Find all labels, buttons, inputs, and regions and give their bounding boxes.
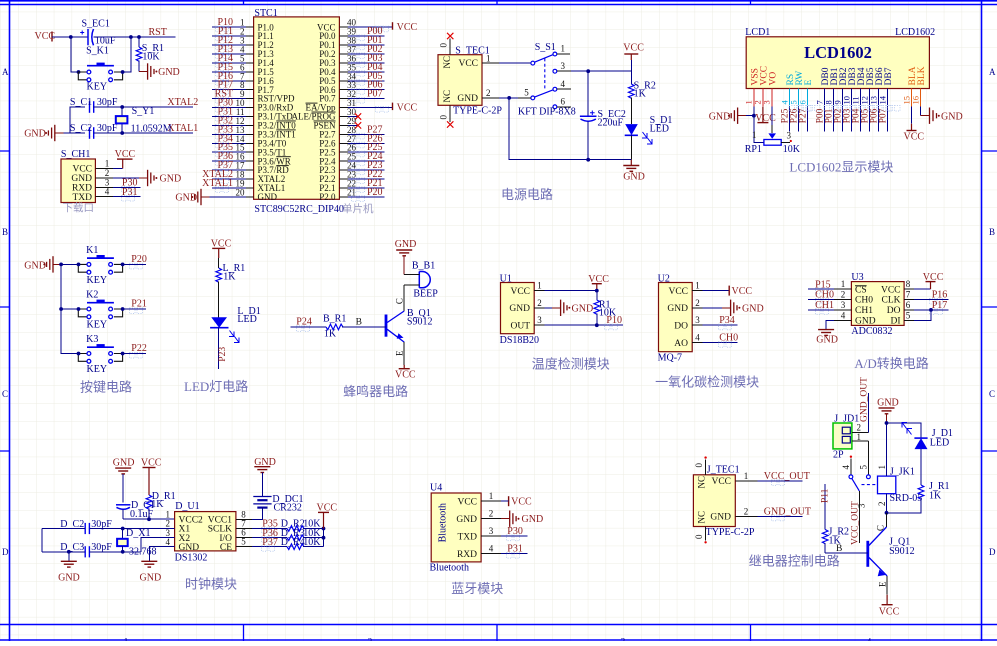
svg-text:4: 4 <box>561 79 566 89</box>
wire LCD BLK to GND <box>921 107 963 124</box>
svg-text:CH0: CH0 <box>855 296 873 306</box>
svg-text:LCD1602显示模块: LCD1602显示模块 <box>789 160 893 175</box>
wire bottom crystal row <box>70 132 85 134</box>
svg-text:B_B1: B_B1 <box>412 260 435 271</box>
resistor D_R1 <box>146 491 175 519</box>
IC STC1 STC89C52RC_DIP40 <box>254 8 340 199</box>
svg-text:B: B <box>836 544 842 554</box>
svg-text:LED: LED <box>650 124 669 135</box>
svg-text:P15: P15 <box>815 279 831 290</box>
svg-text:继电器控制电路: 继电器控制电路 <box>749 554 840 569</box>
U3 pin 5 tied to DO <box>904 308 933 320</box>
svg-text:GND_OUT: GND_OUT <box>860 377 870 422</box>
J_TEC1 pin 1 wire VCC_OUT <box>735 471 810 486</box>
junction relay GND node <box>885 421 889 425</box>
svg-text:6: 6 <box>561 96 566 106</box>
svg-text:GND: GND <box>456 515 477 525</box>
svg-text:C: C <box>395 298 405 304</box>
MCU pin 28 <box>339 124 384 139</box>
svg-text:1: 1 <box>841 279 846 289</box>
wire switch pin3 to VCC node <box>571 70 631 72</box>
pin 4 S_CH1 wire P31 <box>95 187 140 202</box>
svg-text:1: 1 <box>877 465 887 470</box>
J_JD1 pin 1 wire to contact <box>852 432 869 475</box>
svg-text:NC: NC <box>442 90 452 103</box>
svg-text:VCC: VCC <box>72 165 92 175</box>
junction right of cap <box>129 35 133 39</box>
junction at key right <box>121 70 125 74</box>
LCD pin 11 stub <box>850 89 860 107</box>
svg-text:3: 3 <box>695 315 700 325</box>
svg-text:P20: P20 <box>131 254 147 265</box>
U2 pin 1 to VCC <box>692 281 752 297</box>
svg-text:30pF: 30pF <box>97 123 118 134</box>
svg-text:按键电路: 按键电路 <box>80 380 132 395</box>
pin 1 S_TEC1 wire <box>482 53 531 63</box>
MCU pin 35 <box>339 62 384 77</box>
svg-text:VO: VO <box>768 72 778 86</box>
J_JD1 pin 2 wire GND_OUT up <box>852 377 870 433</box>
transistor J_Q1 S9012 <box>868 527 915 576</box>
LCD pin 1 stub <box>744 89 754 107</box>
wire GND to crystal net <box>63 107 85 133</box>
pin 1 S_CH1 <box>95 159 113 169</box>
svg-text:E: E <box>395 350 405 356</box>
LCD pin 16 stub <box>910 89 920 107</box>
power ground GND (power circuit) <box>623 160 645 183</box>
U3 pin 1 wire P15 <box>808 279 851 294</box>
pin 2 S_TEC1 wire to ground rail <box>482 88 509 98</box>
svg-text:E: E <box>877 581 887 587</box>
svg-text:C: C <box>989 389 995 399</box>
MCU pin 12 (P3.2/INT0) <box>212 115 253 129</box>
svg-text:2: 2 <box>489 509 494 519</box>
svg-text:VCC: VCC <box>668 287 688 297</box>
wire VCC2 net <box>123 518 174 520</box>
svg-text:2: 2 <box>841 290 846 300</box>
svg-text:4: 4 <box>105 187 110 197</box>
MCU pin 40 <box>339 18 417 34</box>
pin 0 bottom S_TEC1 no-connect <box>439 105 454 127</box>
svg-text:RXD: RXD <box>457 550 477 560</box>
wire trunk to K1 <box>61 263 78 265</box>
svg-text:DB7: DB7 <box>884 67 894 85</box>
relay contact lever and pin 3 VCC_OUT <box>851 478 867 545</box>
U4 pin 1 to VCC <box>481 491 532 508</box>
MCU pin 7 (P1.6) <box>212 71 253 86</box>
pin 0 top S_TEC1 no-connect <box>439 33 454 55</box>
svg-text:2: 2 <box>486 88 491 98</box>
MCU pin 21 <box>339 187 384 202</box>
svg-text:0: 0 <box>694 534 704 539</box>
wire S_EC1 to RST node <box>94 36 140 38</box>
svg-text:VCC: VCC <box>711 477 731 487</box>
resistor J_R1 <box>887 481 950 513</box>
MCU pin 18 (XTAL2) <box>202 169 253 184</box>
U1 pin 1 wire to VCC <box>534 281 597 291</box>
LCD pin 14 stub <box>877 89 887 107</box>
capacitor D_C3 <box>42 542 141 557</box>
U3 pin 7 wire P16 <box>904 290 948 305</box>
svg-text:4: 4 <box>841 310 846 320</box>
junction S_EC2 top <box>586 69 590 73</box>
svg-text:16: 16 <box>910 96 920 105</box>
svg-text:D: D <box>989 547 996 557</box>
wire D_U1 GND pin to ground <box>149 547 174 562</box>
MCU pin 26 <box>339 142 384 157</box>
power ground GND (D_U1) <box>140 561 162 583</box>
power ground GND (MCU pin20) <box>175 189 209 205</box>
svg-text:10K: 10K <box>783 144 801 155</box>
svg-text:GND: GND <box>58 573 80 584</box>
svg-text:VCC: VCC <box>115 149 136 160</box>
MCU pin 9 (RST/VPD) <box>212 89 253 104</box>
MCU pin 31 <box>339 98 417 114</box>
wire K2 to P21 <box>123 308 146 310</box>
svg-text:GND: GND <box>113 458 135 469</box>
svg-text:4: 4 <box>695 333 700 343</box>
U3 pin 8 to VCC <box>904 272 944 289</box>
svg-text:3: 3 <box>561 61 566 71</box>
switch K1 <box>78 245 122 286</box>
svg-text:TXD: TXD <box>72 193 92 203</box>
svg-text:1: 1 <box>561 44 566 54</box>
MCU pin 32 <box>339 89 384 104</box>
svg-text:S_Y1: S_Y1 <box>132 106 155 117</box>
svg-text:VCC: VCC <box>510 287 530 297</box>
D_U1 pin 5 CE wire P37 <box>236 537 287 552</box>
IC U4 Bluetooth <box>430 483 482 574</box>
crystal S_Y1 <box>116 106 172 135</box>
keys trunk wire <box>61 264 70 353</box>
IC U1 DS18B20 <box>500 273 539 346</box>
MCU pin 13 (P3.3/INT1) <box>212 124 253 139</box>
LCD pin 2 stub <box>753 89 763 107</box>
svg-text:A: A <box>989 67 996 77</box>
resistor S_R2 <box>629 71 656 124</box>
MCU pin 1 (P1.0) <box>212 17 253 32</box>
MCU pin 23 <box>339 169 384 184</box>
svg-text:RXD: RXD <box>72 184 92 194</box>
svg-text:1K: 1K <box>223 271 236 282</box>
svg-text:VCC: VCC <box>923 272 944 283</box>
svg-text:2: 2 <box>368 637 373 642</box>
wire S_C2 to XTAL1 <box>94 132 193 134</box>
svg-text:1K: 1K <box>929 490 942 501</box>
MCU pin 24 <box>339 160 384 175</box>
capacitor S_EC2 <box>580 71 626 160</box>
svg-text:3: 3 <box>537 315 542 325</box>
resistor J_R2 <box>822 526 849 553</box>
LCD pin 12 stub <box>859 89 869 107</box>
LED J_D1 <box>902 423 953 486</box>
D_U1 left pin numbers <box>166 509 171 547</box>
connector S_CH1 <box>61 149 96 203</box>
U4 pin 4 wire P31 <box>481 544 527 559</box>
svg-text:10K: 10K <box>142 52 160 63</box>
capacitor D_C1 <box>116 474 155 520</box>
junction K1 right bracket <box>121 263 125 267</box>
U2 pin 3 wire P34 <box>692 315 737 330</box>
MCU pin 10 (P3.0/RxD) <box>212 98 253 113</box>
power ground GND (clock top-left) <box>113 458 135 474</box>
svg-text:1: 1 <box>124 637 129 642</box>
svg-text:P17: P17 <box>932 300 948 311</box>
svg-text:K2: K2 <box>86 290 98 301</box>
wire trunk to K2 <box>61 308 78 310</box>
svg-text:VCC_OUT: VCC_OUT <box>851 501 861 545</box>
power port VCC (pullups) <box>317 502 338 528</box>
svg-text:GND: GND <box>258 192 278 202</box>
svg-text:S_C1: S_C1 <box>70 97 92 108</box>
svg-text:6: 6 <box>906 300 911 310</box>
svg-text:LED: LED <box>930 437 949 448</box>
svg-text:A: A <box>2 67 9 77</box>
svg-text:B: B <box>356 318 362 328</box>
transistor B_Q1 S9012 <box>386 308 432 342</box>
svg-text:2: 2 <box>695 298 700 308</box>
wire trunk to K3 <box>61 353 78 355</box>
svg-text:LED: LED <box>237 314 256 325</box>
svg-text:P07: P07 <box>367 89 383 100</box>
svg-text:GND: GND <box>509 304 530 314</box>
svg-text:KEY: KEY <box>87 364 108 375</box>
svg-text:电源电路: 电源电路 <box>501 187 553 202</box>
wire left trunk <box>41 529 43 552</box>
svg-text:LED灯电路: LED灯电路 <box>184 379 248 394</box>
power port VCC (LCD pin2, pointing down) <box>755 107 776 124</box>
svg-text:S9012: S9012 <box>407 316 433 327</box>
MCU pin 11 (P3.1/TxD) <box>212 107 253 122</box>
capacitor S_C1 <box>70 97 118 113</box>
svg-text:B_R1: B_R1 <box>323 314 346 325</box>
svg-text:C: C <box>2 389 8 399</box>
svg-text:KEY: KEY <box>87 319 108 330</box>
svg-text:2P: 2P <box>833 450 844 461</box>
svg-text:P11: P11 <box>820 488 830 503</box>
MCU pin 34 <box>339 71 384 86</box>
svg-text:VCC: VCC <box>755 113 776 124</box>
wire S_TEC1 pin5 link <box>509 97 518 99</box>
svg-text:8: 8 <box>906 279 911 289</box>
U1 pin 3 wire P10 <box>534 315 623 330</box>
svg-text:BLK: BLK <box>917 66 927 85</box>
LCD control pins wires P25 P26 P27 <box>780 106 820 132</box>
svg-text:GND: GND <box>623 172 645 183</box>
svg-text:GND: GND <box>941 111 963 122</box>
svg-text:GND: GND <box>667 304 688 314</box>
svg-text:20: 20 <box>236 187 246 197</box>
svg-text:单片机: 单片机 <box>342 202 374 215</box>
svg-text:4: 4 <box>841 465 851 470</box>
svg-text:VCC: VCC <box>904 132 925 143</box>
svg-text:3: 3 <box>841 300 846 310</box>
svg-text:Bluetooth: Bluetooth <box>438 503 449 542</box>
svg-text:K3: K3 <box>86 334 98 345</box>
junction K3 right bracket <box>121 352 125 356</box>
wire VSS down to RP1 pin1 <box>754 116 764 143</box>
switch K2 <box>78 290 122 331</box>
svg-text:GND: GND <box>395 239 417 250</box>
svg-text:ADC0832: ADC0832 <box>851 326 892 337</box>
svg-text:TYPE-C-2P: TYPE-C-2P <box>453 106 502 117</box>
J_TEC1 pin 0 top <box>694 456 707 474</box>
svg-text:1: 1 <box>752 130 757 140</box>
power ground GND (battery) <box>254 457 276 473</box>
net label P11 wire <box>820 484 830 529</box>
svg-text:BEEP: BEEP <box>413 289 438 300</box>
crystal D_X1 <box>117 528 156 557</box>
power ground GND (crystal) <box>24 125 63 141</box>
MCU pin 14 (P3.4/T0) <box>212 133 253 148</box>
MCU pin 20 (GND) <box>209 187 254 197</box>
junction at reset parallel branch left <box>69 35 73 39</box>
svg-text:DO: DO <box>887 306 901 316</box>
svg-text:6: 6 <box>797 100 807 104</box>
svg-text:GND: GND <box>742 303 764 314</box>
svg-text:10K: 10K <box>303 537 321 548</box>
U4 pin 2 to GND <box>481 509 543 527</box>
LCD pin 5 stub <box>788 89 798 107</box>
svg-text:1K: 1K <box>634 89 647 100</box>
svg-text:5: 5 <box>524 88 529 98</box>
svg-text:CH1: CH1 <box>815 300 834 311</box>
svg-text:TXD: TXD <box>457 532 477 542</box>
power port VCC (power circuit) <box>623 43 644 72</box>
svg-text:S_EC1: S_EC1 <box>82 18 110 29</box>
svg-text:CR232: CR232 <box>274 503 302 514</box>
wire left branch to key S_K1 <box>71 37 79 72</box>
MCU pin 36 <box>339 53 384 68</box>
svg-text:1K: 1K <box>151 499 164 510</box>
power ground GND (LCD left) <box>709 108 747 124</box>
wire buzzer to collector <box>395 285 405 311</box>
svg-text:GND: GND <box>24 260 46 271</box>
svg-text:P31: P31 <box>122 187 138 198</box>
svg-text:1: 1 <box>744 471 749 481</box>
U3 pin 6 wire P17 <box>904 300 948 315</box>
svg-text:B: B <box>989 227 995 237</box>
resistor B_R1 <box>323 314 346 340</box>
svg-text:4: 4 <box>489 544 494 554</box>
capacitor S_EC1 <box>80 18 116 46</box>
junction XTAL2 node <box>120 105 124 109</box>
resistor L_R1 <box>216 258 245 317</box>
svg-text:VCC: VCC <box>395 370 416 381</box>
svg-text:D: D <box>2 547 9 557</box>
svg-text:7: 7 <box>906 290 911 300</box>
MCU pin 37 <box>339 44 384 59</box>
relay pin 2 wire <box>877 494 887 513</box>
MCU pin 19 (XTAL1) <box>202 178 253 193</box>
svg-text:DS18B20: DS18B20 <box>500 335 539 346</box>
junction XTAL1 node <box>120 131 124 135</box>
svg-text:K1: K1 <box>86 245 98 256</box>
svg-text:2: 2 <box>744 506 749 516</box>
power port VCC (U1) <box>588 274 609 291</box>
wire GND to buzzer <box>403 256 405 275</box>
MCU pin 17 (P3.7/RD) <box>212 160 253 175</box>
svg-text:VCC: VCC <box>879 607 900 618</box>
svg-text:P10: P10 <box>606 315 622 326</box>
svg-text:P22: P22 <box>131 343 147 354</box>
svg-text:GND: GND <box>457 94 478 104</box>
power port VCC (reset circuit) <box>35 31 56 42</box>
svg-text:DO: DO <box>674 321 688 331</box>
svg-text:220uF: 220uF <box>598 118 624 129</box>
switch K3 <box>78 334 122 375</box>
svg-text:XTAL1: XTAL1 <box>167 123 198 134</box>
J_TEC1 pin 2 wire GND_OUT <box>735 506 811 521</box>
MCU pin 38 <box>339 35 384 50</box>
svg-text:S_C2: S_C2 <box>70 123 92 134</box>
svg-text:XTAL2: XTAL2 <box>167 97 198 108</box>
svg-text:CH0: CH0 <box>815 290 834 301</box>
LCD data pins wires P00-P07 <box>815 106 900 132</box>
junction D_R2 VCC rail <box>322 527 326 531</box>
MCU pin 29 <box>339 116 361 129</box>
svg-text:P20: P20 <box>367 187 383 198</box>
svg-text:时钟模块: 时钟模块 <box>185 577 237 592</box>
svg-text:0: 0 <box>694 463 704 468</box>
buzzer B_B1 BEEP <box>404 260 438 299</box>
svg-text:2: 2 <box>105 168 110 178</box>
svg-text:RST: RST <box>149 27 167 38</box>
svg-text:5: 5 <box>906 310 911 320</box>
LCD pin 4 stub <box>779 89 789 107</box>
svg-text:B: B <box>2 227 8 237</box>
U2 pin 2 to GND <box>692 298 763 316</box>
svg-text:1: 1 <box>105 159 110 169</box>
battery D_DC1 CR232 <box>252 473 304 520</box>
svg-text:1: 1 <box>486 53 491 63</box>
svg-text:0: 0 <box>439 115 449 120</box>
svg-text:14: 14 <box>877 95 887 104</box>
svg-text:3: 3 <box>489 526 494 536</box>
wire LCD BLA to VCC <box>904 107 925 143</box>
junction crystal bottom <box>121 550 125 554</box>
power ground GND (crystal left) <box>58 550 80 584</box>
svg-text:3: 3 <box>621 637 626 642</box>
svg-text:2: 2 <box>537 298 542 308</box>
svg-text:J_TEC1: J_TEC1 <box>707 464 740 475</box>
LCD pin 15 stub <box>901 89 911 107</box>
svg-text:VCC: VCC <box>397 103 418 114</box>
power port VCC (LED circuit) <box>211 238 232 258</box>
MCU pin 22 <box>339 178 384 193</box>
svg-text:VCC: VCC <box>457 497 477 507</box>
resistor D_R2 <box>281 519 324 532</box>
wire S_R1 to GND <box>138 61 140 72</box>
U3 pin 4 to GND <box>816 310 851 345</box>
svg-text:S_K1: S_K1 <box>86 46 109 57</box>
svg-text:GND: GND <box>175 192 197 203</box>
junction trunk K1 <box>59 263 63 267</box>
switch S_K1 <box>78 46 122 93</box>
svg-text:NC: NC <box>697 511 707 524</box>
svg-text:GND: GND <box>572 303 594 314</box>
svg-text:5: 5 <box>241 537 246 547</box>
relay contact pin 4 no-connect <box>841 456 853 479</box>
wire GND node to LED branch <box>887 423 922 438</box>
IC D_U1 DS1302 <box>175 501 236 563</box>
junction LCD VSS-RP1 <box>752 114 756 118</box>
svg-text:蓝牙模块: 蓝牙模块 <box>451 581 503 596</box>
svg-text:5: 5 <box>859 465 869 470</box>
svg-text:STC89C52RC_DIP40: STC89C52RC_DIP40 <box>254 204 343 215</box>
D_U1 pin 8 VCC1 <box>236 509 252 519</box>
D_U1 pin 6 I/O wire P36 <box>236 528 287 543</box>
